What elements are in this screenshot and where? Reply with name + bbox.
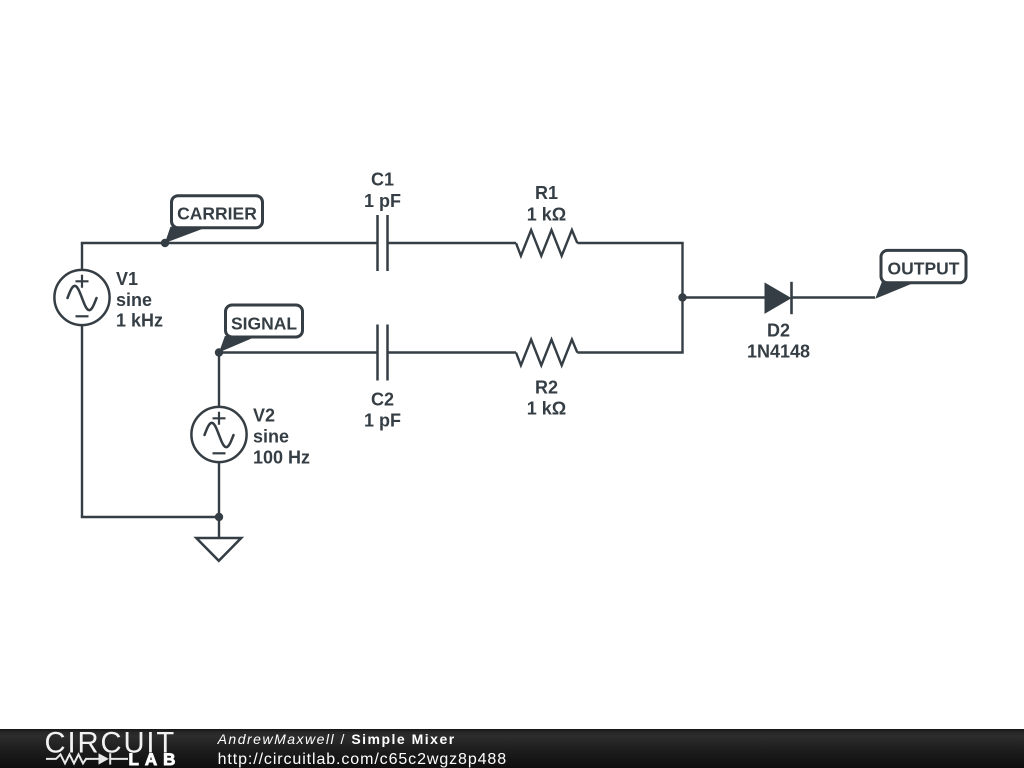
footer bar [0, 729, 1024, 768]
svg-text:1 pF: 1 pF [364, 411, 401, 431]
svg-text:1 kΩ: 1 kΩ [527, 399, 566, 419]
diode D2 labels [747, 321, 810, 362]
wire top-left horizontal [81, 242, 377, 244]
svg-text:sine: sine [253, 426, 289, 446]
capacitor C1 [378, 215, 388, 271]
wire V2 bottom lead [218, 462, 220, 538]
junction dot output node [678, 293, 686, 301]
wire signal mid horizontal [388, 351, 516, 353]
wire V2 top lead [218, 353, 220, 408]
logo diode triangle [99, 753, 109, 764]
capacitor C1 labels [364, 170, 401, 212]
wire V1 top lead [81, 243, 83, 270]
voltage source V1 labels [116, 269, 163, 331]
capacitor C2 [378, 325, 388, 381]
wire signal right horizontal [577, 351, 683, 353]
junction dot signal [215, 348, 223, 356]
svg-text:1 kHz: 1 kHz [116, 311, 163, 331]
svg-text:R1: R1 [535, 183, 558, 203]
svg-text:LAB: LAB [129, 750, 182, 768]
resistor R1 labels [527, 183, 566, 225]
wire right vertical [681, 243, 683, 353]
ground [196, 538, 241, 561]
wire top-mid horizontal [388, 242, 516, 244]
svg-text:OUTPUT: OUTPUT [888, 259, 960, 279]
svg-text:D2: D2 [767, 321, 790, 341]
svg-text:1 kΩ: 1 kΩ [527, 205, 566, 225]
resistor R1 [516, 230, 577, 256]
wire V1 bottom to corner [81, 325, 83, 517]
node CARRIER flag [165, 196, 263, 243]
svg-text:SIGNAL: SIGNAL [231, 313, 297, 333]
svg-text:sine: sine [116, 290, 152, 310]
node OUTPUT flag [875, 250, 966, 298]
svg-text:V2: V2 [253, 406, 275, 426]
voltage source V2 [191, 407, 246, 462]
svg-text:C1: C1 [371, 170, 394, 190]
wire bottom horizontal [81, 516, 219, 518]
svg-text:C2: C2 [371, 390, 394, 410]
node SIGNAL flag [219, 305, 303, 352]
capacitor C2 labels [364, 390, 401, 431]
wire top-right horizontal [577, 242, 683, 244]
resistor R2 labels [527, 378, 566, 419]
junction dot ground node [215, 513, 223, 521]
svg-text:1N4148: 1N4148 [747, 342, 810, 362]
svg-text:R2: R2 [535, 378, 558, 398]
voltage source V2 labels [253, 406, 310, 468]
logo resistor-diode glyph [46, 753, 128, 764]
svg-text:V1: V1 [116, 269, 138, 289]
svg-text:CARRIER: CARRIER [177, 204, 257, 224]
svg-text:1 pF: 1 pF [364, 191, 401, 211]
resistor R2 [516, 340, 577, 366]
wire output right [792, 296, 876, 298]
wire signal horizontal left [219, 351, 377, 353]
diode D2 [765, 282, 792, 314]
junction dot carrier [161, 239, 169, 247]
svg-text:100 Hz: 100 Hz [253, 447, 310, 467]
V2 sine wave [205, 423, 234, 447]
svg-text:AndrewMaxwell / Simple Mixer: AndrewMaxwell / Simple Mixer [217, 731, 456, 747]
V1 sine wave [68, 286, 97, 310]
voltage source V1 [54, 270, 109, 325]
wire output left [683, 296, 766, 298]
svg-text:http://circuitlab.com/c65c2wgz: http://circuitlab.com/c65c2wgz8p488 [218, 751, 507, 768]
